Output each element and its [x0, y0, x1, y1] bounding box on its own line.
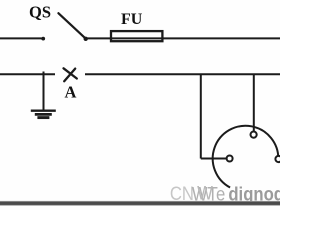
- svg-text:FU: FU: [121, 11, 143, 28]
- wire L1 through fuse and to right edge: [111, 37, 280, 39]
- switch QS fixed contact (left): [41, 37, 45, 41]
- wire L2 right segment: [85, 73, 280, 75]
- switch QS pivot contact (right): [84, 37, 88, 41]
- watermark text: [170, 183, 291, 205]
- motor terminal (right, cut at edge): [275, 156, 281, 162]
- svg-text:W: W: [197, 183, 213, 204]
- svg-text:QS: QS: [29, 3, 51, 22]
- motor M body: [213, 126, 279, 188]
- wire L2 left segment: [0, 73, 55, 75]
- wire: right branch vertical from L2: [253, 74, 255, 132]
- wire: left branch vertical from L2: [200, 74, 202, 159]
- fuse FU body: [111, 31, 162, 41]
- wire to ground (vertical): [43, 72, 45, 111]
- motor terminal (left): [227, 156, 233, 162]
- svg-text:A: A: [65, 83, 77, 102]
- motor terminal (top): [251, 132, 257, 138]
- bottom bar: [0, 202, 280, 206]
- wire: left branch horizontal into motor: [201, 158, 227, 160]
- switch QS blade: [58, 13, 85, 38]
- ground: [31, 111, 56, 118]
- wire L1 left segment: [0, 37, 42, 39]
- wire L1 from switch to fuse: [86, 37, 111, 39]
- test point X (node A): [64, 68, 77, 81]
